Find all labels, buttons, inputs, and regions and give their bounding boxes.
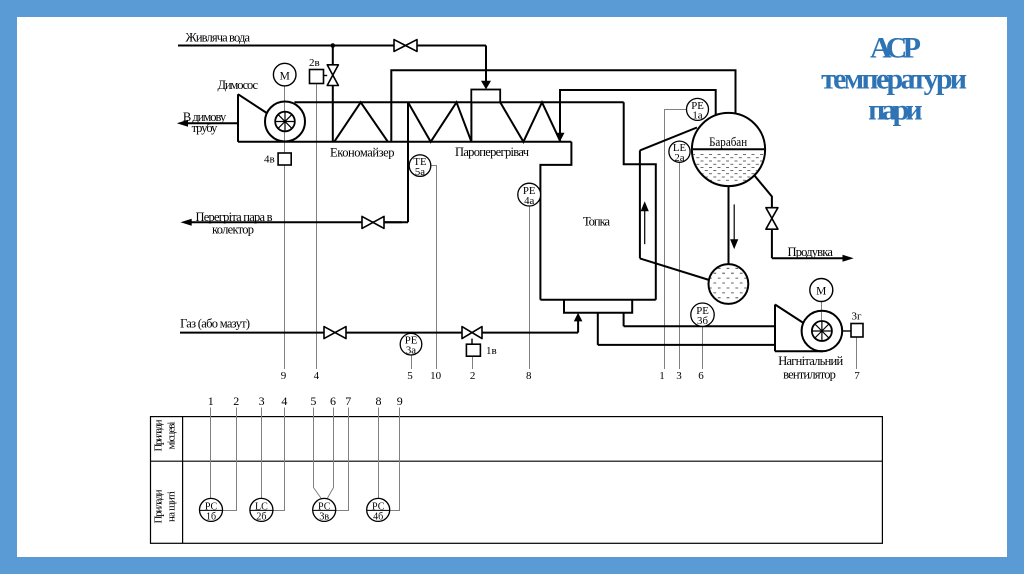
panel instrument LC 2б [250,498,273,522]
svg-text:2б: 2б [256,511,266,522]
wire economizer outlet to drum [391,70,735,142]
svg-text:М: М [280,70,290,82]
motor M right fan [810,279,833,302]
instrument PE 3a [400,333,422,356]
node numbers below diagram [281,370,861,382]
valve gas manual [324,327,346,339]
wire 2 to PC 1б [223,408,237,511]
wire gas line [180,332,324,334]
wire signal 10 from TE 5a right then down [431,166,437,370]
svg-text:вентилятор: вентилятор [783,368,836,382]
wire signal 9 from motor M through fan to box 4в and down [284,86,286,369]
panel instrument PC 4б [367,498,390,522]
arrows [177,81,854,322]
wire signal 8 from PE 4a down [529,206,531,369]
right fan casing Нагнітальний вентилятор [775,305,842,352]
svg-text:3а: 3а [406,345,416,357]
svg-text:2: 2 [470,370,476,382]
superheater coil left [408,102,471,142]
svg-text:1б: 1б [206,511,216,522]
wire 6 to PC 3в [327,408,333,499]
economizer coil [334,102,388,142]
svg-text:місцеві: місцеві [166,422,178,450]
wire superheated steam to collector [407,102,409,222]
wire to chimney [183,122,238,124]
wire signal 5 from PE 3a down [411,355,413,369]
svg-text:Прилади: Прилади [153,489,165,523]
air duct outlet verticals [623,313,625,327]
arrow into economizer header box [481,81,491,90]
furnace bottom [540,299,655,301]
svg-text:Газ (або мазут): Газ (або мазут) [180,317,250,331]
wire downcomer drum to lower drum [728,186,730,266]
flow arrow downcomer [733,204,735,240]
wire feed water line [178,45,394,47]
arrow blowdown [843,255,854,262]
svg-text:2: 2 [233,394,239,408]
svg-text:5: 5 [310,394,316,408]
svg-text:4: 4 [281,394,287,408]
furnace bottom step [564,300,632,313]
wire blowdown from drum [754,175,772,207]
svg-text:Барабан: Барабан [709,135,747,149]
svg-text:4в: 4в [264,154,275,166]
wire 1 to PC 1б [210,408,212,499]
svg-text:трубу: трубу [192,121,219,135]
fan hub smoke exhauster [275,112,295,132]
svg-text:8: 8 [376,394,382,408]
svg-text:на щиті: на щиті [166,491,178,522]
svg-text:Живляча вода: Живляча вода [186,30,251,44]
svg-text:2а: 2а [674,152,684,164]
wire actuator link 2в [324,75,328,77]
wire 7 to PC 3в [336,408,349,511]
wire signal 6 from PE 3б down [702,326,704,369]
table frame [151,417,883,544]
svg-text:3: 3 [259,394,265,408]
svg-text:пари: пари [868,94,923,127]
svg-text:9: 9 [281,370,287,382]
instrument TE 5a [409,155,431,178]
svg-text:1а: 1а [692,110,702,122]
superheater coil right [500,102,560,142]
duct bottom [238,141,571,143]
instrument LE 2a [669,141,690,164]
svg-text:8: 8 [526,370,532,382]
svg-text:10: 10 [430,370,442,382]
fan circle [802,311,843,352]
svg-text:6: 6 [330,394,336,408]
table header row1: Прилади місцеві [153,419,178,523]
smoke exhauster fan casing [238,94,305,142]
svg-text:температури: температури [821,63,967,96]
svg-text:Продувка: Продувка [788,245,834,259]
instrument PE 3б [691,303,714,327]
wire actuator link 1в [471,339,473,345]
wire signal 1 from PE 1a left then down [665,110,689,370]
svg-text:2в: 2в [309,57,320,69]
svg-text:7: 7 [345,394,351,408]
svg-text:6: 6 [698,370,704,382]
svg-text:колектор: колектор [212,223,254,237]
svg-text:3в: 3в [319,511,329,522]
furnace neck right [624,102,656,299]
table signal wires [211,408,400,511]
svg-text:4а: 4а [524,195,534,207]
table column numbers [208,394,403,408]
actuator box 1в [466,344,480,356]
svg-text:3б: 3б [697,315,708,327]
wire signal 3 from LE 2a down [679,162,681,369]
wire link to box 3г [842,330,851,332]
air duct top [624,325,775,327]
air duct bottom [598,344,775,346]
wire signal 7 from box 3г down [856,337,858,369]
blue frame right [1007,0,1024,574]
title АСР температури пари [821,32,967,127]
wire riser to lower drum [640,258,714,281]
blue frame left [0,0,17,574]
svg-text:М: М [816,286,826,298]
svg-text:4: 4 [314,370,320,382]
svg-text:Економайзер: Економайзер [330,146,395,160]
instrument PE 1a [687,98,709,121]
svg-text:Димосос: Димосос [218,78,259,92]
svg-text:9: 9 [397,394,403,408]
wire 4 to LC 2б [273,408,285,511]
wire branch to valve 2в [332,46,334,65]
valve feed water [394,40,417,52]
drum Барабан [691,113,766,186]
wire motor link right fan [821,302,823,322]
wire 3 to LC 2б [261,408,263,499]
duct top [294,101,623,103]
svg-text:Пароперегрівач: Пароперегрівач [455,145,529,159]
arrow steam into superheater [556,133,565,142]
junction node feed water [331,43,336,48]
panel instrument PC 3в [313,498,336,522]
svg-text:1: 1 [208,394,214,408]
wire signal 2 from box 1в down [472,356,474,369]
panel instrument PC 1б [200,498,223,522]
wire 5 to PC 3в [314,408,322,499]
wire drum steam to superheater [560,90,716,135]
actuator box 3г [851,324,863,338]
svg-text:5а: 5а [415,166,425,178]
riser channel [639,150,641,258]
svg-text:7: 7 [854,370,860,382]
economizer feed header box [471,90,500,103]
svg-text:4б: 4б [373,511,383,522]
svg-text:5: 5 [407,370,413,382]
blue frame top [0,0,1024,17]
wire signal 4 from box 2в down [316,84,318,370]
arrow gas into furnace [574,313,583,322]
svg-text:Прилади: Прилади [153,419,165,451]
arrow to chimney [177,120,188,127]
motor M smoke exhauster [273,63,296,86]
lower drum [709,264,750,304]
svg-text:3г: 3г [852,311,863,323]
valve gas control 1в [462,327,482,339]
blue frame bottom [0,557,1024,574]
arrow superheated steam [181,219,192,226]
svg-text:1: 1 [659,370,665,382]
svg-text:Топка: Топка [583,215,610,229]
fan hub right fan [812,321,832,341]
svg-text:3: 3 [676,370,682,382]
fan circle [265,102,305,142]
wire 9 to PC 4б [390,408,400,511]
instrument PE 4a [518,183,541,207]
valve superheated steam [362,216,384,228]
furnace neck left [540,142,571,300]
actuator box 2в [310,70,324,84]
flow arrow riser [642,203,738,248]
svg-text:АСР: АСР [870,32,921,65]
svg-text:1в: 1в [486,345,497,357]
wire 8 to PC 4б [378,408,380,499]
actuator box 4в [278,153,291,165]
valve 2в (vertical) [327,65,338,86]
valve blowdown (vertical) [766,208,778,230]
wire riser to drum [640,128,697,151]
svg-text:Нагнітальний: Нагнітальний [778,354,843,368]
